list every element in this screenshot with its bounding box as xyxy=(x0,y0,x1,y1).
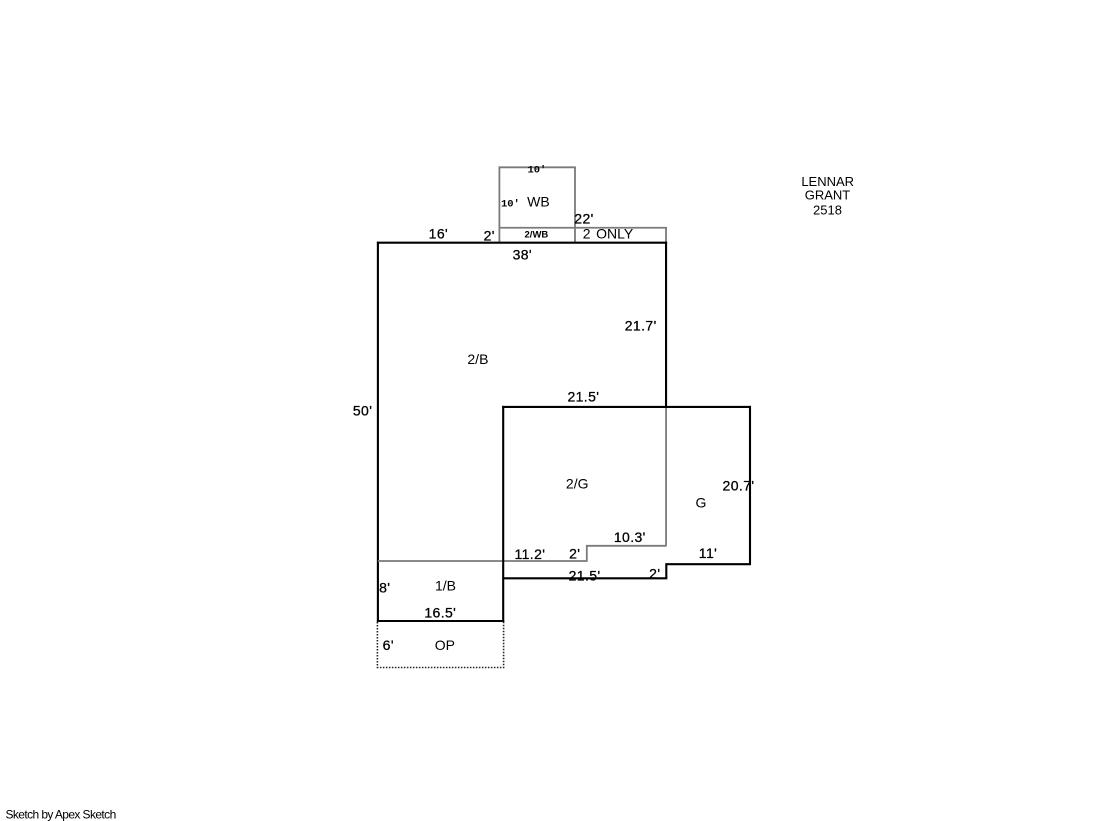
svg-text:21.7': 21.7' xyxy=(625,318,657,334)
svg-text:2/B: 2/B xyxy=(467,351,488,367)
svg-text:6': 6' xyxy=(383,637,394,653)
svg-text:21.5': 21.5' xyxy=(567,389,599,405)
svg-text:G: G xyxy=(696,495,707,511)
svg-text:2': 2' xyxy=(569,546,580,562)
svg-text:2 ONLY: 2 ONLY xyxy=(583,226,634,242)
svg-text:10': 10' xyxy=(501,199,520,211)
svg-text:Sketch by Apex Sketch: Sketch by Apex Sketch xyxy=(6,807,116,821)
svg-text:10.3': 10.3' xyxy=(614,529,646,545)
svg-text:2/WB: 2/WB xyxy=(525,229,549,240)
2/B outline (black exterior walls) xyxy=(377,242,667,622)
svg-text:2': 2' xyxy=(649,565,660,581)
svg-text:2': 2' xyxy=(484,228,495,244)
2/G outline (black) xyxy=(502,406,751,622)
2/B interior gray edges (bottom with step) xyxy=(378,407,667,561)
svg-text:1/B: 1/B xyxy=(435,578,456,594)
svg-text:WB: WB xyxy=(527,194,550,210)
OP dotted porch box xyxy=(377,622,503,668)
svg-text:38': 38' xyxy=(513,247,532,263)
svg-text:11': 11' xyxy=(699,545,717,561)
svg-text:21.5': 21.5' xyxy=(569,568,601,584)
WB box outline xyxy=(499,167,575,227)
svg-text:2/G: 2/G xyxy=(566,476,589,492)
svg-text:16': 16' xyxy=(429,226,448,242)
svg-text:8': 8' xyxy=(379,580,390,596)
svg-text:11.2': 11.2' xyxy=(514,546,545,562)
svg-text:16.5': 16.5' xyxy=(424,604,456,620)
svg-text:22': 22' xyxy=(574,210,593,226)
svg-text:50': 50' xyxy=(353,403,372,419)
svg-text:OP: OP xyxy=(435,637,455,653)
title LENNAR GRANT 2518 xyxy=(801,174,854,218)
svg-text:20.7': 20.7' xyxy=(723,478,755,494)
1/B bottom edge xyxy=(377,620,504,622)
svg-text:2518: 2518 xyxy=(813,203,842,218)
svg-text:10': 10' xyxy=(527,165,546,177)
svg-text:GRANT: GRANT xyxy=(805,187,851,202)
2/WB and 2 ONLY strip outline xyxy=(499,228,667,243)
